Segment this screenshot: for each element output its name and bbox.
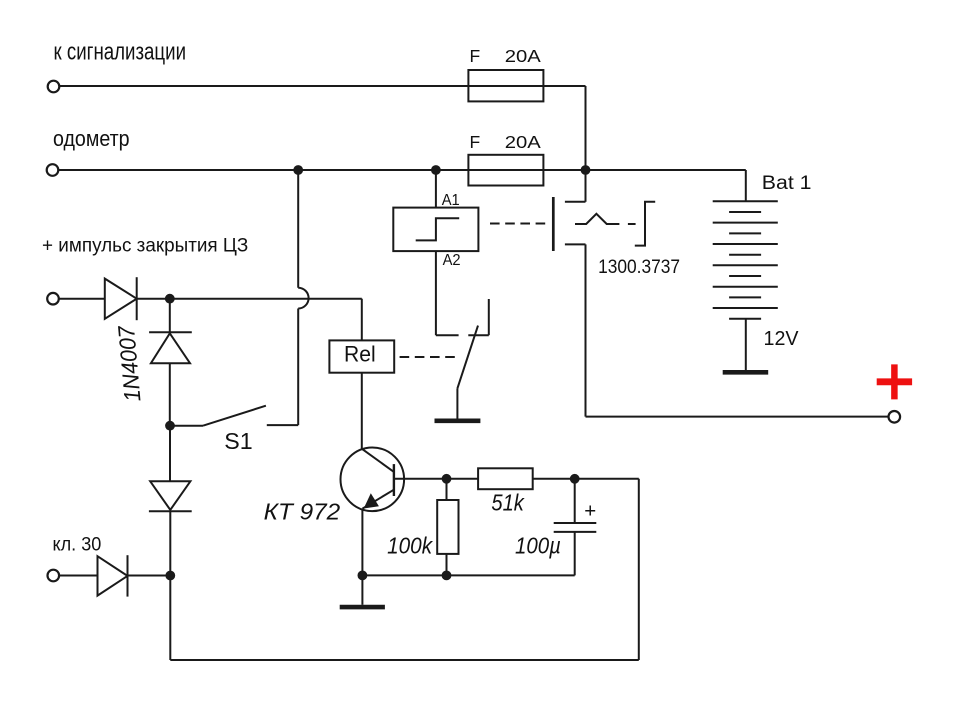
svg-text:A2: A2 [443, 252, 461, 269]
svg-text:12V: 12V [764, 328, 800, 350]
svg-text:к сигнализации: к сигнализации [54, 39, 187, 66]
svg-text:+: + [584, 500, 596, 523]
svg-text:F: F [470, 132, 481, 152]
svg-text:20A: 20A [505, 132, 541, 152]
svg-text:51k: 51k [491, 490, 525, 516]
svg-text:кл. 30: кл. 30 [53, 535, 102, 556]
svg-text:S1: S1 [224, 428, 252, 454]
svg-text:одометр: одометр [53, 126, 130, 151]
svg-text:20A: 20A [505, 46, 541, 66]
svg-text:Rel: Rel [344, 342, 376, 367]
svg-text:+ импульс закрытия ЦЗ: + импульс закрытия ЦЗ [42, 236, 248, 257]
svg-text:F: F [470, 46, 481, 66]
svg-text:100µ: 100µ [515, 533, 561, 559]
svg-text:1300.3737: 1300.3737 [598, 257, 680, 278]
svg-text:КТ 972: КТ 972 [264, 499, 341, 525]
svg-text:A1: A1 [442, 192, 460, 209]
svg-text:Bat 1: Bat 1 [762, 173, 812, 194]
svg-text:100k: 100k [387, 533, 433, 559]
